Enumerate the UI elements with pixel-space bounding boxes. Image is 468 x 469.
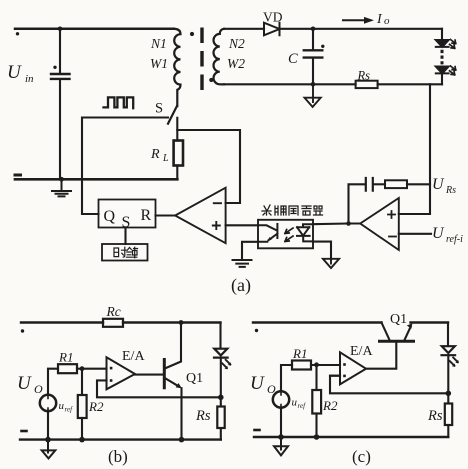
- node + terminal dot (input plus): [16, 32, 19, 35]
- op-amp U2: [360, 198, 399, 250]
- node junction dot R1/R2 (b): [80, 366, 85, 371]
- label U_ref-i: [432, 225, 463, 245]
- LED inside opto: [297, 224, 313, 241]
- wire top rail (b) right: [123, 321, 221, 323]
- label u_ref (c): [292, 397, 307, 411]
- wire R2 (c) top lead: [315, 365, 317, 390]
- comparator minus mark: [214, 202, 221, 204]
- label U_O (b): [17, 373, 43, 396]
- wire cap to resistor: [374, 183, 385, 185]
- capacitor C: [304, 50, 323, 57]
- svg-text:(b): (b): [108, 447, 128, 466]
- LED D4 emission arrows: [450, 358, 458, 366]
- svg-text:ref: ref: [298, 402, 307, 410]
- svg-text:in: in: [25, 73, 34, 85]
- svg-text:I: I: [376, 12, 383, 27]
- op-amp U2 plus mark: [388, 211, 395, 218]
- svg-text:C: C: [288, 51, 298, 67]
- resistor Rc: [103, 319, 123, 327]
- wire source (c) bottom lead: [280, 408, 282, 437]
- svg-text:ref: ref: [65, 406, 74, 414]
- wire R2 (b) top lead: [81, 369, 83, 395]
- svg-text:R1: R1: [292, 346, 307, 361]
- wire comparator minus input: [177, 130, 240, 203]
- node junction dot C bottom: [311, 82, 316, 87]
- E/A (c) input marks: [343, 363, 346, 366]
- node terminal dot (b): [21, 329, 24, 332]
- transistor Q1 (c) emitter: [382, 323, 390, 341]
- svg-text:O: O: [34, 382, 43, 396]
- op-amp U2 minus mark: [389, 236, 396, 238]
- label 时钟 (approximated glyphs): [114, 247, 138, 258]
- svg-text:(c): (c): [352, 447, 371, 466]
- wire Q1 (b) emitter to rail: [180, 388, 182, 439]
- wire RL bottom to rail: [176, 166, 178, 180]
- node junction dot emitter rail (b): [179, 437, 185, 443]
- switch S blade: [168, 106, 177, 123]
- wire bottom rail primary side: [15, 178, 177, 181]
- svg-text:R: R: [141, 207, 152, 224]
- resistor R1 (c): [292, 361, 311, 370]
- node minus terminal mark: [15, 174, 21, 177]
- node C polarity dot: [321, 45, 324, 48]
- phototransistor inside opto: [258, 224, 277, 242]
- op-amp E/A (b): [107, 357, 136, 389]
- comparator U1: [175, 188, 226, 244]
- svg-text:R: R: [150, 147, 160, 162]
- svg-text:W1: W1: [150, 56, 168, 71]
- wire Q output to switch drive: [82, 118, 168, 215]
- wire Rs (c) leads: [447, 393, 449, 437]
- node junction dot Cin top: [58, 27, 63, 32]
- label U_Rs: [432, 176, 456, 196]
- flip-flop QSR box: [99, 200, 156, 228]
- light arrows inside opto: [285, 228, 293, 241]
- node junction dot Rs top (b): [218, 395, 224, 401]
- wire R1 (b) right to E/A: [77, 368, 107, 370]
- LED D1 emission arrows: [450, 40, 456, 49]
- LED D2: [436, 67, 449, 74]
- node junction dot source bottom (b): [45, 437, 51, 443]
- wire switch bottom to RL: [176, 118, 178, 141]
- label Io: [376, 12, 390, 27]
- svg-text:Q1: Q1: [390, 312, 407, 327]
- wire E/A (b) output to Q1 base: [135, 374, 164, 376]
- transistor Q1 (b) base bar: [163, 360, 166, 388]
- wire dashed LED string: [441, 50, 444, 65]
- capacitor C top lead: [312, 29, 314, 50]
- svg-text:N1: N1: [150, 36, 167, 51]
- svg-text:L: L: [162, 153, 169, 164]
- wire E/A (c) inverting input stub: [330, 375, 340, 377]
- wire opto emitter to ground: [242, 242, 258, 260]
- wire Cin bottom lead: [59, 80, 61, 180]
- resistor R2 (b): [78, 395, 87, 418]
- wire R2 (c) bottom lead: [315, 414, 317, 438]
- wire top rail (c): [253, 321, 382, 323]
- svg-text:R2: R2: [322, 398, 338, 413]
- LED D2 emission arrows: [450, 66, 456, 75]
- svg-text:W2: W2: [227, 56, 245, 71]
- wire bottom rail (b): [20, 438, 221, 440]
- label RL: [150, 147, 169, 164]
- ground G1: [52, 179, 71, 196]
- node junction dot C top: [311, 27, 316, 32]
- svg-text:E/A: E/A: [350, 344, 373, 359]
- wire feedback (c): [330, 376, 448, 394]
- svg-text:Rs: Rs: [357, 69, 371, 83]
- ground open-triangle opto right: [323, 259, 339, 268]
- wire top rail primary side: [15, 28, 174, 31]
- clock box: [102, 244, 148, 261]
- label opto 光耦隔离器 (approximated glyphs): [262, 205, 323, 215]
- node junction dot R2 bottom (b): [79, 437, 85, 443]
- transformer core: [200, 28, 203, 91]
- node Cin polarity dot: [53, 66, 56, 69]
- svg-text:Rs: Rs: [195, 408, 211, 424]
- source u_ref (c): [273, 391, 289, 407]
- E/A (b) input marks: [110, 367, 113, 370]
- wire comparator output to R: [156, 214, 176, 216]
- svg-text:VD: VD: [263, 10, 283, 25]
- wire Q1 (c) base stem: [366, 341, 396, 368]
- wire source (b) bottom lead: [47, 411, 49, 439]
- op-amp E/A (c): [340, 352, 366, 384]
- diode VD: [264, 23, 280, 36]
- node junction dot R2 bottom (c): [314, 434, 320, 440]
- node terminal dot (c): [255, 329, 258, 332]
- wire feedback riser: [349, 184, 365, 223]
- node phasing dot secondary: [209, 78, 213, 82]
- LED D3 (b): [214, 349, 228, 358]
- comparator plus mark: [213, 222, 220, 229]
- transistor Q1 (c) bar: [380, 340, 414, 343]
- wire R1 (c) left lead: [281, 365, 292, 391]
- capacitor feedback: [366, 178, 373, 191]
- svg-text:R2: R2: [88, 399, 104, 414]
- wire comparator plus input: [226, 224, 258, 226]
- LED D4 (c): [442, 346, 456, 355]
- label u_ref (b): [59, 400, 74, 414]
- resistor Rs (b): [217, 407, 224, 429]
- capacitor C bottom lead: [312, 58, 314, 84]
- capacitor Cin: [51, 74, 70, 79]
- source u_ref (b): [40, 395, 56, 411]
- wire bottom rail (c): [254, 436, 448, 438]
- wire LED (b) top lead: [219, 323, 221, 349]
- wire LED (c) bottom lead: [447, 355, 449, 393]
- svg-text:Rs: Rs: [445, 185, 456, 196]
- wire top rail (b) left: [21, 321, 103, 323]
- current arrow Io: [343, 19, 366, 21]
- svg-text:Rc: Rc: [106, 304, 121, 319]
- wire top rail (c) right segment: [411, 321, 449, 323]
- wire resistor to U_Rs node: [407, 183, 430, 185]
- wire Cin top lead: [59, 29, 61, 73]
- wire LED string bottom lead: [441, 74, 443, 85]
- node minus terminal mark (c): [255, 429, 260, 432]
- svg-text:E/A: E/A: [122, 349, 145, 364]
- transistor Q1 (c) collector with arrow: [405, 327, 411, 340]
- node junction dot collector (b): [179, 320, 184, 325]
- svg-text:ref-i: ref-i: [446, 234, 463, 245]
- wire U_Rs sense line: [399, 84, 430, 214]
- svg-text:U: U: [250, 373, 265, 394]
- node junction dot source bottom (c): [278, 434, 284, 440]
- transistor Q1 (b) collector: [165, 323, 181, 369]
- wire diode to LED corner: [280, 28, 443, 30]
- wire R1 (c) right to E/A: [311, 364, 340, 366]
- wire R2 (b) bottom lead: [81, 418, 83, 440]
- wire E/A (b) inverting input feedback: [97, 380, 221, 397]
- ground open-triangle (c): [274, 437, 288, 455]
- wire Rs (b) leads: [220, 397, 222, 439]
- LED D3 emission arrows: [222, 360, 230, 368]
- resistor R1 (b): [58, 364, 77, 373]
- svg-text:U: U: [432, 176, 445, 193]
- svg-text:(a): (a): [231, 275, 251, 296]
- svg-text:S: S: [155, 101, 163, 117]
- wire secondary bottom to Rs: [224, 83, 356, 85]
- svg-text:o: o: [384, 15, 390, 27]
- resistor R2 (c): [312, 390, 321, 414]
- wire secondary top to diode: [224, 28, 264, 30]
- svg-text:R1: R1: [58, 350, 73, 365]
- U_in label: [7, 62, 34, 85]
- svg-text:N2: N2: [228, 36, 245, 51]
- resistor Rs (c): [445, 404, 452, 426]
- svg-text:Q: Q: [104, 208, 116, 225]
- transformer T1 primary winding W1: [174, 29, 181, 106]
- ground open-triangle (b): [42, 440, 56, 459]
- label U_O (c): [250, 373, 276, 396]
- wire LED string top lead: [441, 29, 443, 40]
- resistor Rs (a): [356, 81, 378, 88]
- LED D1: [436, 40, 449, 47]
- wire R1 (b) left lead: [48, 369, 58, 395]
- transistor Q1 (b) emitter: [165, 378, 179, 387]
- ground G2: [233, 260, 252, 267]
- svg-text:Q1: Q1: [186, 371, 203, 386]
- node minus terminal mark (b): [22, 430, 27, 433]
- transformer T1 secondary winding W2: [213, 29, 224, 85]
- optocoupler U3 box: [258, 220, 313, 249]
- svg-text:Rs: Rs: [427, 408, 443, 424]
- wire LED (c) top lead: [447, 323, 449, 347]
- resistor feedback: [385, 180, 407, 188]
- wire U_ref-i input: [399, 233, 431, 235]
- node junction dot Rs top (c): [446, 391, 452, 397]
- svg-text:U: U: [7, 62, 22, 83]
- resistor RL: [174, 141, 183, 166]
- svg-text:U: U: [17, 373, 32, 394]
- node phasing dot primary: [190, 32, 194, 36]
- wire opto LED cathode out: [313, 242, 331, 260]
- wire op-amp output to opto: [313, 222, 360, 225]
- node junction dot op-amp output: [346, 221, 351, 226]
- node junction dot R1/R2 (c): [314, 362, 319, 367]
- ground open-triangle below C: [305, 84, 321, 107]
- wire Rs to LED corner: [378, 83, 442, 85]
- wire LED (b) bottom lead: [220, 358, 222, 398]
- wire S flip-flop to clock: [124, 228, 126, 245]
- node junction dot ground: [59, 177, 64, 182]
- svg-text:U: U: [432, 225, 445, 242]
- pulse waveform symbol: [104, 97, 134, 108]
